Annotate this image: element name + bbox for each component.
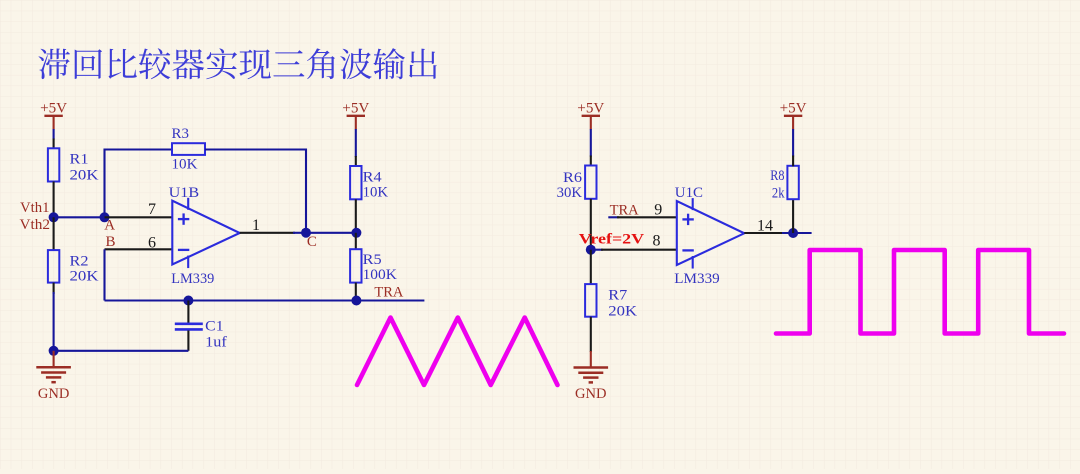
op-amp U1B triangle xyxy=(172,201,239,265)
svg-text:Vref=2V: Vref=2V xyxy=(579,232,644,248)
resistor R2 xyxy=(48,250,59,283)
svg-text:10K: 10K xyxy=(172,157,198,173)
node Vref xyxy=(586,245,596,255)
wire: +5V to R1 xyxy=(53,129,55,140)
svg-text:20K: 20K xyxy=(608,303,637,319)
svg-text:R2: R2 xyxy=(70,253,89,269)
triangle waveform xyxy=(357,318,558,386)
wire: C1 to GND rail xyxy=(54,350,189,352)
wire: +5V to R4 xyxy=(355,129,357,157)
svg-text:LM339: LM339 xyxy=(171,271,214,287)
svg-text:2k: 2k xyxy=(772,186,785,202)
wire: +5V to R8 xyxy=(792,129,794,157)
resistor R5 xyxy=(350,249,361,282)
wire: node B down xyxy=(103,249,105,300)
svg-text:R7: R7 xyxy=(608,287,628,303)
svg-text:R4: R4 xyxy=(363,169,383,185)
node TRA xyxy=(351,296,361,306)
title text 滞回比较器实现三角波输出 xyxy=(39,48,437,79)
op-amp U1B GND pin stub xyxy=(187,256,189,269)
svg-text:20K: 20K xyxy=(70,168,99,184)
op-amp U1C GND pin stub xyxy=(692,256,694,269)
svg-text:GND: GND xyxy=(575,386,607,402)
wire: C1 bottom pin xyxy=(187,331,189,351)
divider node xyxy=(351,228,361,238)
svg-text:TRA: TRA xyxy=(374,284,403,300)
svg-text:LM339: LM339 xyxy=(674,271,719,287)
wire: R6 to Vref node xyxy=(590,199,592,250)
svg-text:R8: R8 xyxy=(770,168,784,184)
svg-text:U1B: U1B xyxy=(169,185,200,201)
op-amp U1C minus marker xyxy=(682,249,693,251)
wire: R2 top pin xyxy=(53,217,55,250)
ground GND xyxy=(36,366,71,369)
svg-text:C: C xyxy=(307,234,317,250)
svg-text:Vth1: Vth1 xyxy=(20,200,50,216)
svg-text:6: 6 xyxy=(148,234,156,251)
svg-text:GND: GND xyxy=(38,386,70,402)
svg-text:7: 7 xyxy=(148,201,156,218)
wire: Vth node to node A xyxy=(54,216,105,218)
svg-text:+5V: +5V xyxy=(577,100,604,116)
node output 14 / R8 xyxy=(788,228,798,238)
svg-text:Vth2: Vth2 xyxy=(20,217,51,233)
svg-text:R3: R3 xyxy=(172,126,190,142)
resistor R3 xyxy=(172,143,205,155)
wire: pin 14 output xyxy=(744,232,784,234)
svg-text:A: A xyxy=(104,218,115,234)
wire: node C to divider xyxy=(306,232,356,234)
node C xyxy=(301,228,311,238)
wire: pin 8 xyxy=(591,249,603,251)
wire: R8 bottom pin xyxy=(792,199,794,233)
wire: R1 to node Vth xyxy=(53,182,55,218)
wire: R4 to divider node xyxy=(355,199,357,233)
resistor R1 xyxy=(48,148,59,181)
wire: pin 7 xyxy=(105,216,173,218)
wire: corner down to node C xyxy=(305,149,307,233)
svg-text:100K: 100K xyxy=(363,267,397,283)
wire: R5 to TRA node xyxy=(355,283,357,301)
node C1 tap xyxy=(183,296,193,306)
wire: pin 6 xyxy=(105,248,173,250)
svg-text:20K: 20K xyxy=(70,268,99,284)
node GND junction xyxy=(49,346,59,356)
op-amp U1C V+ pin stub xyxy=(692,198,694,210)
op-amp U1C triangle xyxy=(677,201,745,265)
svg-text:U1C: U1C xyxy=(675,185,703,201)
wire: R7 to GND xyxy=(590,317,592,352)
wire: +5V to R6 xyxy=(590,129,592,157)
wire: pin 1 output xyxy=(240,232,295,234)
svg-text:R5: R5 xyxy=(363,252,382,268)
svg-text:C1: C1 xyxy=(205,319,223,335)
svg-text:R6: R6 xyxy=(563,170,583,186)
op-amp U1C plus marker xyxy=(682,218,693,220)
svg-text:TRA: TRA xyxy=(610,203,639,219)
resistor R6 xyxy=(585,166,596,199)
svg-text:1uf: 1uf xyxy=(205,334,227,350)
svg-text:1: 1 xyxy=(252,217,260,234)
ground GND xyxy=(574,366,609,369)
ground stub xyxy=(53,351,55,367)
svg-text:+5V: +5V xyxy=(342,100,369,116)
op-amp U1B plus marker xyxy=(178,218,189,220)
svg-text:R1: R1 xyxy=(70,152,89,168)
wire: R3 right to corner xyxy=(205,148,306,150)
op-amp U1B V+ pin stub xyxy=(187,198,189,210)
net TRA wire xyxy=(105,299,425,301)
node A xyxy=(100,212,110,222)
resistor R8 xyxy=(787,166,798,199)
ground stub xyxy=(590,351,592,367)
square waveform xyxy=(776,250,1064,334)
resistor R7 xyxy=(585,284,596,317)
svg-text:30K: 30K xyxy=(557,185,583,201)
net TRA stub wire xyxy=(608,216,619,218)
svg-text:8: 8 xyxy=(653,233,661,250)
op-amp U1B minus marker xyxy=(178,249,189,251)
svg-text:+5V: +5V xyxy=(780,100,807,116)
svg-text:9: 9 xyxy=(654,201,662,218)
wire: R2 bottom xyxy=(53,283,55,294)
svg-text:B: B xyxy=(106,234,116,250)
resistor R4 xyxy=(350,166,361,199)
svg-text:14: 14 xyxy=(757,218,773,235)
wire: divider node to R5 xyxy=(355,233,357,250)
svg-text:10K: 10K xyxy=(363,184,389,200)
node Vth1/Vth2 xyxy=(49,212,59,222)
capacitor C1 xyxy=(175,322,203,325)
wire: R3 left xyxy=(104,148,173,150)
wire: C1 top pin xyxy=(187,301,189,324)
wire: Vref node to R7 xyxy=(590,250,592,285)
svg-text:+5V: +5V xyxy=(40,100,67,116)
wire: node A up to R3 xyxy=(103,149,105,218)
